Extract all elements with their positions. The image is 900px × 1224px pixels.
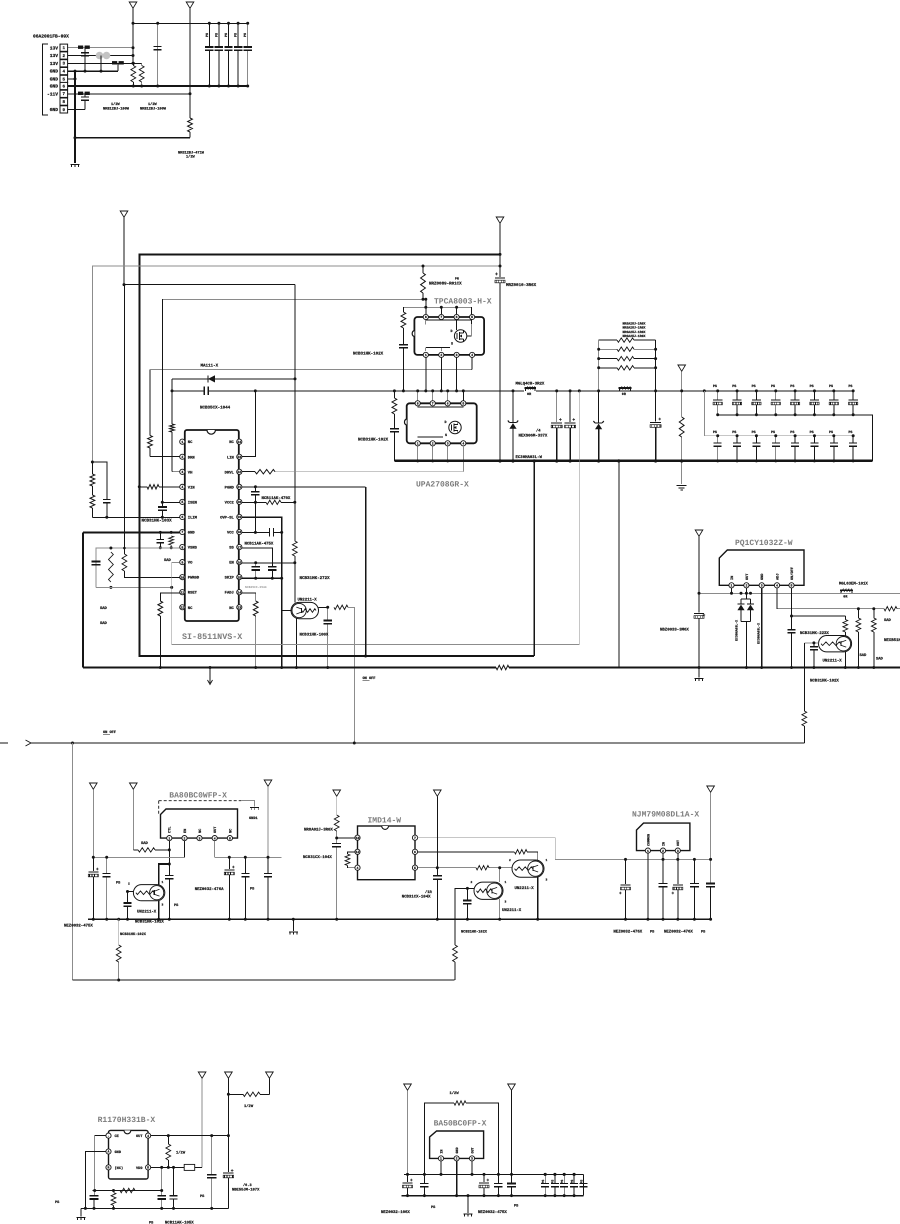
wire VDD line bbox=[151, 1166, 185, 1168]
fuse pin1 bbox=[78, 46, 83, 49]
capacitor NEZ0032-475X + bbox=[483, 1174, 485, 1182]
capacitor c5 bbox=[267, 857, 269, 873]
svg-text:10: 10 bbox=[180, 575, 184, 579]
resistor output bleed bbox=[681, 391, 683, 417]
svg-text:IN: IN bbox=[439, 1149, 444, 1153]
resistor DRN bbox=[148, 436, 153, 449]
wire feedback riser bbox=[618, 461, 620, 668]
wire PWRGD bbox=[124, 571, 179, 578]
antenna R1170 a bbox=[198, 1072, 206, 1078]
svg-text:+: + bbox=[619, 892, 622, 897]
svg-text:PS: PS bbox=[752, 384, 756, 389]
svg-text:NCB31HK-102X: NCB31HK-102X bbox=[461, 930, 488, 935]
svg-text:NC: NC bbox=[188, 440, 193, 445]
svg-text:NRB12BJ-100W: NRB12BJ-100W bbox=[140, 107, 167, 112]
wire ON/OFF branch down bbox=[72, 743, 74, 980]
svg-text:D: D bbox=[445, 420, 447, 425]
svg-text:1/2W: 1/2W bbox=[450, 1091, 460, 1096]
wire DRN bbox=[149, 448, 151, 457]
svg-text:EN: EN bbox=[183, 829, 188, 833]
svg-text:21: 21 bbox=[237, 485, 241, 489]
svg-text:VIN: VIN bbox=[188, 485, 196, 490]
svg-text:2: 2 bbox=[509, 859, 511, 862]
wire ON/OFF pin bbox=[791, 588, 793, 616]
svg-text:EC30HA03L-X: EC30HA03L-X bbox=[757, 623, 761, 644]
svg-text:PS: PS bbox=[243, 33, 248, 37]
svg-text:SAD: SAD bbox=[884, 618, 892, 623]
svg-text:PS: PS bbox=[570, 1180, 574, 1184]
capacitor bank PS row2 x8 bbox=[704, 391, 717, 436]
svg-text:GND: GND bbox=[50, 107, 59, 113]
svg-text:RSET: RSET bbox=[188, 591, 198, 596]
svg-text:/4: /4 bbox=[536, 429, 541, 434]
wire VCC2 net vertical bbox=[294, 285, 296, 503]
svg-text:NCB31HK-102X: NCB31HK-102X bbox=[353, 352, 384, 357]
svg-text:SKIP: SKIP bbox=[225, 576, 235, 581]
transistor UN2211-X (BA80) bbox=[133, 885, 164, 901]
svg-text:6: 6 bbox=[181, 515, 183, 519]
svg-text:4: 4 bbox=[181, 485, 183, 489]
diode EC30HA03L-X x2 bbox=[745, 588, 747, 599]
svg-text:6: 6 bbox=[447, 402, 449, 406]
svg-text:3: 3 bbox=[761, 584, 763, 588]
svg-text:5: 5 bbox=[147, 1166, 149, 1170]
wire PGND loop bbox=[365, 487, 367, 656]
svg-text:1: 1 bbox=[546, 859, 548, 862]
svg-text:OUT: OUT bbox=[676, 840, 681, 846]
svg-text:EN: EN bbox=[229, 561, 234, 566]
svg-text:NCB31HK-272X: NCB31HK-272X bbox=[300, 576, 331, 581]
svg-text:8: 8 bbox=[181, 545, 183, 549]
svg-text:18: 18 bbox=[237, 530, 241, 534]
svg-text:NR8A02J-3R0X: NR8A02J-3R0X bbox=[304, 828, 333, 833]
wire UPA pins bottom bbox=[417, 446, 419, 461]
svg-text:NCB31HK-223X: NCB31HK-223X bbox=[800, 631, 829, 636]
wire PQ gnd pin bbox=[761, 588, 763, 668]
svg-text:4: 4 bbox=[776, 584, 778, 588]
svg-text:PWRGD: PWRGD bbox=[188, 576, 200, 581]
svg-text:NCB11AK-105X: NCB11AK-105X bbox=[165, 1221, 194, 1224]
antenna 13V main bbox=[120, 211, 128, 217]
svg-text:PS: PS bbox=[771, 430, 775, 435]
svg-text:GND: GND bbox=[188, 531, 196, 536]
resistor VCC2-EN bbox=[292, 541, 297, 556]
svg-text:MGLQ4CH-3R2X: MGLQ4CH-3R2X bbox=[516, 381, 545, 386]
wire 13V rail top bbox=[133, 22, 248, 24]
svg-text:OVP-SL: OVP-SL bbox=[220, 515, 234, 520]
wire IMD right pin2 bbox=[418, 851, 514, 853]
fuse pin7 bbox=[78, 92, 83, 95]
wire pin1 13V bbox=[68, 47, 133, 49]
svg-text:/1R: /1R bbox=[425, 890, 433, 895]
svg-text:2: 2 bbox=[432, 442, 434, 446]
svg-text:NRZ0089-R01CX: NRZ0089-R01CX bbox=[429, 282, 462, 287]
svg-text:7: 7 bbox=[440, 315, 442, 319]
capacitor mid bbox=[157, 23, 159, 86]
svg-text:R: R bbox=[108, 1166, 110, 1170]
capacitor NJM c4 bbox=[693, 859, 695, 883]
wire feedback bbox=[96, 586, 172, 588]
wire ON/OFF riser bbox=[803, 643, 805, 711]
wire PQ in line bbox=[699, 592, 854, 594]
wire 1190 rail bbox=[93, 1190, 162, 1192]
wire 13V feed bbox=[124, 284, 295, 286]
svg-text:SS: SS bbox=[229, 546, 234, 551]
wire pin2 13V bbox=[68, 55, 133, 57]
svg-text:NCB35CX-3544: NCB35CX-3544 bbox=[245, 586, 267, 589]
svg-text:PS: PS bbox=[810, 384, 814, 389]
svg-text:TPCA8003-H-X: TPCA8003-H-X bbox=[434, 298, 492, 307]
svg-text:NCB31HK-102X: NCB31HK-102X bbox=[135, 920, 164, 925]
wire -11V return bbox=[75, 137, 190, 139]
svg-text:PS: PS bbox=[224, 33, 229, 37]
wire VO bbox=[172, 563, 180, 645]
svg-text:PS: PS bbox=[541, 1180, 545, 1184]
antenna PQ input bbox=[695, 530, 703, 536]
svg-text:3: 3 bbox=[456, 353, 458, 357]
svg-text:5: 5 bbox=[471, 315, 473, 319]
wire UN2211 emitter bbox=[844, 652, 846, 668]
antenna BA50 b bbox=[508, 1084, 516, 1090]
svg-text:UN2211-X: UN2211-X bbox=[515, 886, 535, 891]
wire UN2211 base bbox=[804, 642, 818, 644]
svg-text:ON/OFF: ON/OFF bbox=[790, 567, 795, 580]
wire pill1-pill2 link bbox=[499, 868, 501, 882]
svg-text:NEZ0032-475X: NEZ0032-475X bbox=[64, 924, 93, 929]
wire pill1 emitter bbox=[537, 877, 539, 920]
svg-text:ISEN: ISEN bbox=[188, 500, 198, 505]
ground R1170 bbox=[80, 1208, 82, 1216]
capacitor bank PS bottom x5 bbox=[544, 1173, 547, 1176]
svg-text:4: 4 bbox=[147, 1134, 149, 1138]
wire pin6 GND bus bbox=[68, 85, 248, 87]
wire OUT line bbox=[151, 1135, 229, 1137]
svg-text:R1170H331B-X: R1170H331B-X bbox=[98, 1116, 156, 1125]
svg-text:PS: PS bbox=[560, 1180, 564, 1184]
svg-text:ADJ: ADJ bbox=[776, 574, 781, 580]
svg-text:IMD14-W: IMD14-W bbox=[368, 817, 402, 826]
wire OVP-SL bbox=[242, 517, 282, 667]
wire gnd rail 919 bbox=[88, 918, 711, 920]
wire UPA gate pin4 bbox=[462, 446, 464, 472]
svg-text:PS: PS bbox=[790, 430, 794, 435]
wire NJM input rail bbox=[626, 858, 711, 860]
svg-text:NBZ0033-3M6X: NBZ0033-3M6X bbox=[660, 628, 689, 633]
svg-text:NJM79M08DL1A-X: NJM79M08DL1A-X bbox=[632, 811, 699, 820]
svg-text:1/2W: 1/2W bbox=[186, 155, 195, 160]
svg-text:S: S bbox=[451, 342, 453, 347]
wire GND stub bbox=[74, 71, 76, 163]
svg-text:23: 23 bbox=[237, 455, 241, 459]
svg-text:1: 1 bbox=[440, 1157, 442, 1161]
svg-text:1: 1 bbox=[505, 881, 507, 884]
ground PQ bbox=[698, 668, 700, 678]
svg-text:NCB11AK-475X: NCB11AK-475X bbox=[245, 541, 274, 546]
resistor NRS12BJ-471W bbox=[188, 118, 193, 132]
inductor output bead bbox=[619, 389, 621, 391]
wire bus gray bbox=[92, 266, 500, 462]
resistor GND-VSNS bbox=[169, 536, 174, 545]
capacitor VSNS net bbox=[92, 561, 101, 563]
svg-text:7: 7 bbox=[181, 530, 183, 534]
wire CE bbox=[95, 1136, 106, 1191]
capacitor GND-VSNS bbox=[159, 532, 161, 539]
antenna BA50 a bbox=[404, 1084, 412, 1090]
svg-text:OUT: OUT bbox=[470, 1147, 475, 1153]
antenna 13V bbox=[129, 2, 137, 8]
svg-text:NC831CX-104X: NC831CX-104X bbox=[303, 855, 332, 860]
svg-text:PN: PN bbox=[455, 277, 459, 281]
svg-text:9: 9 bbox=[181, 560, 183, 564]
svg-text:GND: GND bbox=[760, 573, 765, 580]
wire CTL bbox=[168, 841, 170, 864]
svg-text:NCB31HK-102X: NCB31HK-102X bbox=[810, 679, 839, 684]
svg-text:PS: PS bbox=[713, 430, 717, 435]
svg-text:BA50BC0FP-X: BA50BC0FP-X bbox=[434, 1120, 487, 1129]
svg-text:15: 15 bbox=[237, 575, 241, 579]
resistor FADJ bbox=[253, 601, 258, 616]
resistor lower right bbox=[453, 945, 458, 962]
resistor lower left bbox=[117, 918, 120, 921]
wire EN drop bbox=[184, 841, 186, 858]
wire switch rail bbox=[212, 390, 513, 392]
svg-text:NCB31HK-102X: NCB31HK-102X bbox=[358, 437, 389, 442]
antenna 13V TPCA bbox=[496, 217, 504, 223]
wire pin4 GND bbox=[68, 70, 118, 72]
svg-text:13V: 13V bbox=[50, 45, 59, 51]
capacitor pin1 bbox=[84, 48, 86, 71]
svg-text:SI-8511NVS-X: SI-8511NVS-X bbox=[182, 632, 243, 642]
svg-text:VSNS: VSNS bbox=[188, 546, 198, 551]
capacitor c2 bbox=[106, 857, 108, 873]
svg-text:PQ1CY1032Z-W: PQ1CY1032Z-W bbox=[735, 539, 793, 548]
transistor UN2211-X lower bbox=[474, 882, 503, 899]
ground arrow bbox=[209, 668, 211, 684]
wire 980 rail bbox=[73, 979, 455, 981]
wire pin7 -11V bbox=[68, 93, 190, 95]
capacitor output ecap1 bbox=[556, 391, 558, 422]
resistor NRB12BJ-100W #1 bbox=[131, 66, 136, 83]
wire pill2 base bbox=[467, 887, 474, 889]
svg-text:VDD: VDD bbox=[136, 1166, 143, 1171]
svg-text:12: 12 bbox=[180, 605, 184, 609]
wire switch rail right bbox=[557, 390, 854, 392]
svg-text:PS: PS bbox=[732, 430, 736, 435]
svg-text:NCB31HK-103X: NCB31HK-103X bbox=[142, 519, 173, 524]
svg-text:2: 2 bbox=[440, 353, 442, 357]
svg-text:PS: PS bbox=[732, 384, 736, 389]
capacitor NC831CX-104X bbox=[336, 838, 338, 844]
svg-text:NEXS06M-337X: NEXS06M-337X bbox=[519, 434, 548, 439]
svg-text:PS: PS bbox=[752, 430, 756, 435]
svg-text:1: 1 bbox=[731, 584, 733, 588]
wire GND pin bbox=[83, 531, 180, 533]
svg-text:PS: PS bbox=[810, 430, 814, 435]
svg-text:3: 3 bbox=[505, 901, 507, 904]
wire TPCA pin4 gate bbox=[471, 358, 473, 370]
wire pin3 13V bbox=[68, 62, 142, 64]
svg-text:NBE55JM-107X: NBE55JM-107X bbox=[232, 1188, 260, 1193]
wire output sense drop bbox=[533, 461, 535, 656]
svg-text:13V: 13V bbox=[50, 53, 59, 59]
resistor gnd bus bbox=[496, 665, 509, 669]
wire pill2 emitter bbox=[499, 899, 501, 919]
svg-text:PS: PS bbox=[790, 384, 794, 389]
ground bbox=[71, 164, 80, 166]
resistor ILIM lower bbox=[90, 495, 95, 508]
svg-text:3: 3 bbox=[447, 442, 449, 446]
svg-text:VCC: VCC bbox=[227, 531, 235, 536]
resistor PWRGD pullup bbox=[122, 554, 127, 571]
wire SS bbox=[242, 548, 272, 567]
svg-text:OUT: OUT bbox=[745, 573, 750, 580]
resistor NRB12BJ-100W #2 bbox=[139, 66, 144, 83]
svg-text:GND1: GND1 bbox=[249, 816, 258, 821]
wire OVP sense bbox=[578, 391, 580, 644]
svg-text:+: + bbox=[672, 892, 675, 897]
wire DRVL bbox=[242, 471, 255, 473]
svg-text:5: 5 bbox=[229, 836, 231, 840]
svg-text:1: 1 bbox=[425, 353, 427, 357]
svg-text:1: 1 bbox=[417, 442, 419, 446]
antenna output bbox=[678, 365, 686, 371]
capacitor output ecap2 bbox=[569, 391, 571, 422]
svg-text:3: 3 bbox=[199, 836, 201, 840]
svg-text:UPA2708GR-X: UPA2708GR-X bbox=[416, 481, 469, 490]
svg-text:IN: IN bbox=[661, 842, 666, 846]
svg-text:SAD: SAD bbox=[164, 558, 172, 563]
wire gate line bbox=[150, 370, 472, 436]
svg-text:8: 8 bbox=[417, 402, 419, 406]
diode zener output bbox=[598, 391, 600, 423]
svg-text:-: - bbox=[108, 1134, 110, 1138]
capacitor base BA80 bbox=[127, 892, 129, 904]
svg-text:13V: 13V bbox=[50, 61, 59, 67]
antenna BA80 a bbox=[90, 783, 98, 789]
capacitor ctl bbox=[168, 864, 170, 876]
svg-text:NCB31CX-104X: NCB31CX-104X bbox=[402, 895, 431, 900]
svg-text:2: 2 bbox=[181, 455, 183, 459]
svg-text:2: 2 bbox=[662, 849, 664, 853]
capacitor ba50 c4 bbox=[497, 1174, 499, 1183]
svg-text:MRZ0010-3R6X: MRZ0010-3R6X bbox=[506, 283, 537, 288]
svg-text:(NC): (NC) bbox=[115, 1166, 124, 1171]
svg-text:6: 6 bbox=[414, 850, 416, 854]
svg-text:D: D bbox=[451, 329, 453, 334]
wire TPCA pins 1-3 to switch rail bbox=[425, 358, 427, 391]
wire UN2211 collector resistor bbox=[319, 606, 328, 608]
wire TPCA inner rails bbox=[426, 319, 472, 321]
capacitor ecap NRSA rail bbox=[655, 391, 657, 422]
antenna R1170 c bbox=[266, 1072, 274, 1078]
svg-text:SAD: SAD bbox=[100, 606, 108, 611]
capacitor NEZ0032-476A bbox=[228, 857, 230, 869]
wire BA50 pin2 gnd bbox=[456, 1161, 458, 1196]
svg-text:14: 14 bbox=[237, 590, 241, 594]
svg-text:16: 16 bbox=[237, 560, 241, 564]
wire GND1 tab bbox=[241, 801, 254, 807]
wire GND pin R1170 bbox=[85, 1152, 106, 1209]
wire BA50 pin1 bbox=[440, 1161, 442, 1174]
resistor SAD2 bbox=[873, 609, 875, 618]
ground 919 bbox=[292, 919, 294, 931]
svg-text:PS: PS bbox=[579, 1180, 583, 1184]
svg-text:24: 24 bbox=[237, 440, 241, 444]
svg-text:EC30HA03L-X: EC30HA03L-X bbox=[735, 620, 739, 641]
svg-text:A: A bbox=[108, 1150, 110, 1154]
svg-text:6: 6 bbox=[456, 315, 458, 319]
part DNP pin2 (greyed) bbox=[96, 52, 104, 60]
wire UPA inner bbox=[418, 406, 464, 408]
wire VSNS bbox=[96, 548, 180, 587]
svg-text:COMMON: COMMON bbox=[646, 834, 651, 846]
resistor NCB31HK-102X UPA bbox=[393, 391, 395, 398]
resistor bank NRSA25J-1R0X x4 bbox=[617, 338, 634, 342]
wire output gnd rail thick bbox=[394, 460, 872, 462]
svg-text:SAD: SAD bbox=[141, 841, 149, 846]
capacitor NJM ec3 bbox=[677, 859, 679, 884]
svg-text:3: 3 bbox=[677, 849, 679, 853]
wire bottom gnd bus bbox=[83, 667, 496, 669]
wire VH net bbox=[171, 379, 173, 391]
capacitor EN-SKIP bbox=[255, 563, 257, 567]
svg-text:SAD: SAD bbox=[100, 621, 108, 626]
svg-text:NEZ0032-476X: NEZ0032-476X bbox=[664, 930, 693, 935]
capacitor pin7 bbox=[84, 94, 86, 97]
wire VDD caps bbox=[161, 1167, 163, 1195]
svg-text:GND: GND bbox=[50, 84, 59, 90]
svg-text:+: + bbox=[559, 418, 562, 423]
svg-text:20: 20 bbox=[237, 500, 241, 504]
svg-text:VO: VO bbox=[188, 561, 193, 566]
capacitor NCB11AK-470X bbox=[254, 487, 256, 492]
capacitor NJM ec1 bbox=[625, 859, 627, 884]
svg-text:GND: GND bbox=[50, 69, 59, 75]
transistor UN2211-X upper bbox=[512, 860, 544, 877]
svg-text:+: + bbox=[572, 418, 575, 423]
diode NEXS06M-337X bbox=[512, 391, 514, 423]
svg-text:PS: PS bbox=[205, 33, 210, 37]
svg-text:PS: PS bbox=[214, 33, 219, 37]
svg-text:OUT: OUT bbox=[136, 1134, 143, 1139]
mosfet Q UPA bbox=[449, 421, 461, 433]
svg-text:+: + bbox=[658, 418, 661, 423]
svg-text:7: 7 bbox=[432, 402, 434, 406]
svg-text:3: 3 bbox=[471, 1157, 473, 1161]
svg-text:GND: GND bbox=[455, 1147, 460, 1153]
antenna IMD left bbox=[333, 790, 341, 796]
wire ISEN bbox=[162, 501, 179, 503]
svg-text:LIN: LIN bbox=[227, 455, 235, 460]
resistor pin2 line bbox=[514, 850, 527, 854]
svg-text:13: 13 bbox=[237, 605, 241, 609]
resistor UN2211 pullup bbox=[843, 620, 848, 633]
svg-text:OUT: OUT bbox=[213, 826, 218, 833]
capacitor NEZ0032-106X bbox=[407, 1174, 409, 1182]
capacitor bank PS row1 x8 bbox=[716, 389, 719, 392]
svg-text:GND: GND bbox=[50, 77, 59, 83]
svg-text:1: 1 bbox=[162, 881, 164, 884]
mosfet Q TPCA bbox=[454, 330, 466, 342]
wire VIN bbox=[147, 485, 159, 489]
svg-text:22: 22 bbox=[237, 470, 241, 474]
wire VH bbox=[171, 424, 173, 432]
wire bottom rail R1170 bbox=[81, 1207, 228, 1209]
svg-text:5: 5 bbox=[462, 402, 464, 406]
svg-text:NRSA25J-1R0X: NRSA25J-1R0X bbox=[623, 334, 646, 338]
wire TPCA top rail bbox=[403, 306, 471, 308]
svg-text:PS: PS bbox=[829, 384, 833, 389]
